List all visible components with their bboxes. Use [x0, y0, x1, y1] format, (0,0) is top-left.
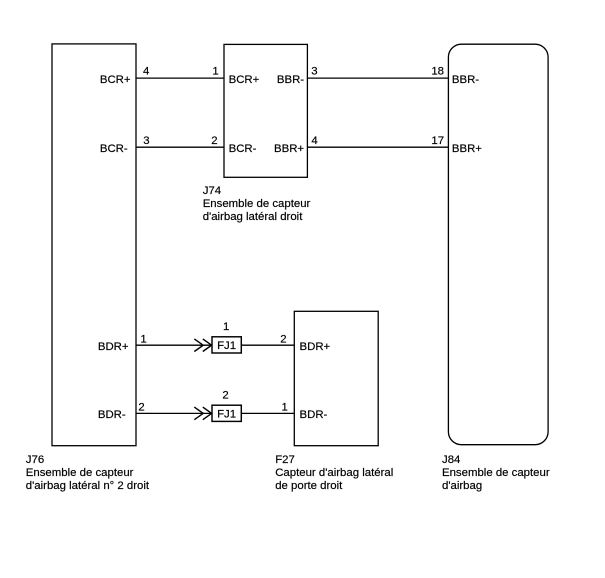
svg-text:BBR+: BBR+ [274, 143, 304, 155]
svg-text:2: 2 [138, 402, 144, 414]
svg-text:3: 3 [311, 65, 317, 77]
svg-text:4: 4 [311, 135, 317, 147]
svg-text:d'airbag latéral n° 2 droit: d'airbag latéral n° 2 droit [26, 480, 150, 492]
svg-text:BDR-: BDR- [300, 409, 328, 421]
svg-text:BDR+: BDR+ [300, 341, 331, 353]
svg-text:BBR-: BBR- [452, 74, 479, 86]
svg-text:17: 17 [431, 135, 444, 147]
svg-text:F27: F27 [275, 454, 295, 466]
svg-text:2: 2 [222, 390, 228, 402]
svg-text:BCR+: BCR+ [100, 74, 131, 86]
svg-text:BCR+: BCR+ [229, 74, 260, 86]
svg-text:4: 4 [143, 65, 149, 77]
svg-text:FJ1: FJ1 [217, 340, 236, 352]
svg-text:2: 2 [280, 333, 286, 345]
svg-text:BDR-: BDR- [98, 409, 126, 421]
svg-text:d'airbag: d'airbag [442, 480, 482, 492]
svg-text:BCR-: BCR- [229, 143, 257, 155]
svg-text:J74: J74 [203, 185, 221, 197]
svg-text:Capteur d'airbag latéral: Capteur d'airbag latéral [275, 467, 393, 479]
svg-text:1: 1 [140, 333, 146, 345]
svg-text:2: 2 [211, 135, 217, 147]
svg-text:BCR-: BCR- [100, 143, 128, 155]
svg-text:Ensemble de capteur: Ensemble de capteur [442, 467, 550, 479]
svg-text:1: 1 [223, 321, 229, 333]
svg-text:18: 18 [431, 65, 444, 77]
svg-text:d'airbag latéral droit: d'airbag latéral droit [203, 211, 304, 223]
svg-text:J84: J84 [442, 454, 460, 466]
svg-text:BBR-: BBR- [277, 74, 304, 86]
svg-text:3: 3 [143, 135, 149, 147]
svg-text:1: 1 [282, 402, 288, 414]
svg-text:FJ1: FJ1 [217, 409, 236, 421]
svg-text:J76: J76 [26, 454, 44, 466]
svg-text:Ensemble de capteur: Ensemble de capteur [26, 467, 134, 479]
svg-text:BBR+: BBR+ [452, 143, 482, 155]
svg-text:de porte droit: de porte droit [275, 480, 343, 492]
svg-text:BDR+: BDR+ [98, 341, 129, 353]
svg-text:1: 1 [212, 65, 218, 77]
svg-text:Ensemble de capteur: Ensemble de capteur [203, 198, 311, 210]
